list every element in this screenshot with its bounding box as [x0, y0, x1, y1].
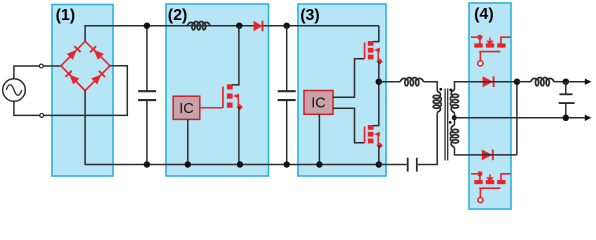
node Q1 source	[237, 161, 244, 168]
rectifier diode D6 top	[483, 76, 517, 87]
transformer T1 core	[445, 89, 448, 161]
label (1)	[56, 7, 76, 24]
wire L3 to output cap	[554, 81, 566, 83]
svg-text:IC: IC	[179, 101, 194, 117]
stage box (4) synchronous rectifier	[469, 3, 511, 209]
wire midpoint to resonant inductor	[379, 81, 400, 83]
transistor Q5 sync-rect illustration bottom	[471, 171, 510, 202]
wire bottom rail	[85, 91, 379, 165]
arrow return output	[585, 115, 592, 121]
wire U1 ground lead	[187, 119, 189, 164]
node output cap top	[563, 78, 570, 85]
node output cap bottom	[563, 115, 570, 122]
node U2 ground	[316, 161, 323, 168]
T1 secondary lower polarity dot	[449, 121, 452, 124]
T1 secondary upper polarity dot	[449, 89, 452, 92]
wire D7 cathode to output node	[516, 82, 518, 155]
transistor Q4 sync-rect illustration top	[471, 35, 510, 66]
node C1 bottom	[144, 161, 151, 168]
inductor L2 resonant	[400, 78, 423, 86]
node rectified output	[514, 78, 521, 85]
wire secondary top lead	[455, 82, 483, 90]
inductor L3 output filter	[531, 78, 554, 86]
node center tap	[452, 115, 457, 120]
wire U2 ground lead	[318, 114, 320, 164]
bridge diode D1 upper-left	[61, 41, 85, 66]
stage box (3) half-bridge	[298, 4, 386, 176]
wire to output inductor	[517, 81, 531, 83]
rectifier diode D7 bottom	[482, 150, 517, 161]
T1 primary polarity dot	[439, 88, 442, 91]
terminal top	[39, 64, 43, 68]
label (2)	[168, 7, 188, 24]
T1 secondary lower winding	[450, 125, 458, 148]
bridge diode D2 upper-right	[85, 41, 110, 66]
arrow V+ output	[585, 79, 592, 85]
stage box (2) PFC boost	[166, 4, 269, 176]
node Q3 source	[376, 161, 383, 168]
node C2 bottom	[283, 161, 290, 168]
svg-text:(1): (1)	[56, 7, 76, 24]
wire V+ output	[566, 81, 585, 83]
T1 secondary upper winding	[450, 90, 458, 113]
wire secondary center-tap link	[454, 113, 456, 125]
wire AC return to bridge right node	[44, 66, 128, 116]
bridge diode D4 lower-right	[85, 66, 110, 91]
stage box (1) rectifier	[52, 5, 113, 177]
bridge diode D3 lower-left	[61, 66, 85, 91]
wire U2 to Q2 gate	[333, 59, 364, 98]
terminal bottom	[40, 114, 44, 118]
wire AC top lead	[14, 66, 40, 79]
node boost diode anode	[236, 22, 243, 29]
transformer T1 primary winding	[433, 91, 441, 112]
svg-text:(3): (3)	[300, 7, 320, 24]
transistor Q1 boost MOSFET	[223, 26, 243, 165]
wire L2 to transformer primary	[424, 82, 438, 92]
wire center-tap output line	[454, 117, 585, 119]
capacitor C1	[138, 26, 156, 165]
wire AC bottom lead	[14, 101, 40, 115]
IC U2 (half-bridge controller)	[304, 91, 333, 115]
IC U1 (PFC controller)	[173, 96, 200, 119]
svg-text:(2): (2)	[168, 7, 188, 24]
label (3)	[300, 7, 320, 24]
wire U2 to Q3 gate	[333, 108, 364, 143]
wire top rail	[85, 26, 379, 42]
node U1 ground	[185, 161, 192, 168]
capacitor C4 output	[559, 82, 575, 118]
transistor Q2 high-side MOSFET	[365, 26, 383, 82]
wire terminal to bridge left node	[43, 65, 61, 67]
transistor Q3 low-side MOSFET	[365, 82, 383, 165]
boost diode D5	[254, 21, 263, 32]
node half-bridge midpoint	[376, 78, 383, 85]
wire secondary bottom lead	[455, 148, 483, 155]
AC source V1	[3, 79, 26, 102]
capacitor C2	[278, 22, 296, 164]
wire U1 gate drive	[200, 107, 223, 109]
capacitor C3 resonant	[379, 112, 437, 171]
label (4)	[474, 6, 494, 23]
node C1 top	[144, 22, 151, 29]
svg-text:(4): (4)	[474, 6, 494, 23]
inductor L1	[187, 22, 210, 30]
svg-text:IC: IC	[311, 96, 326, 112]
